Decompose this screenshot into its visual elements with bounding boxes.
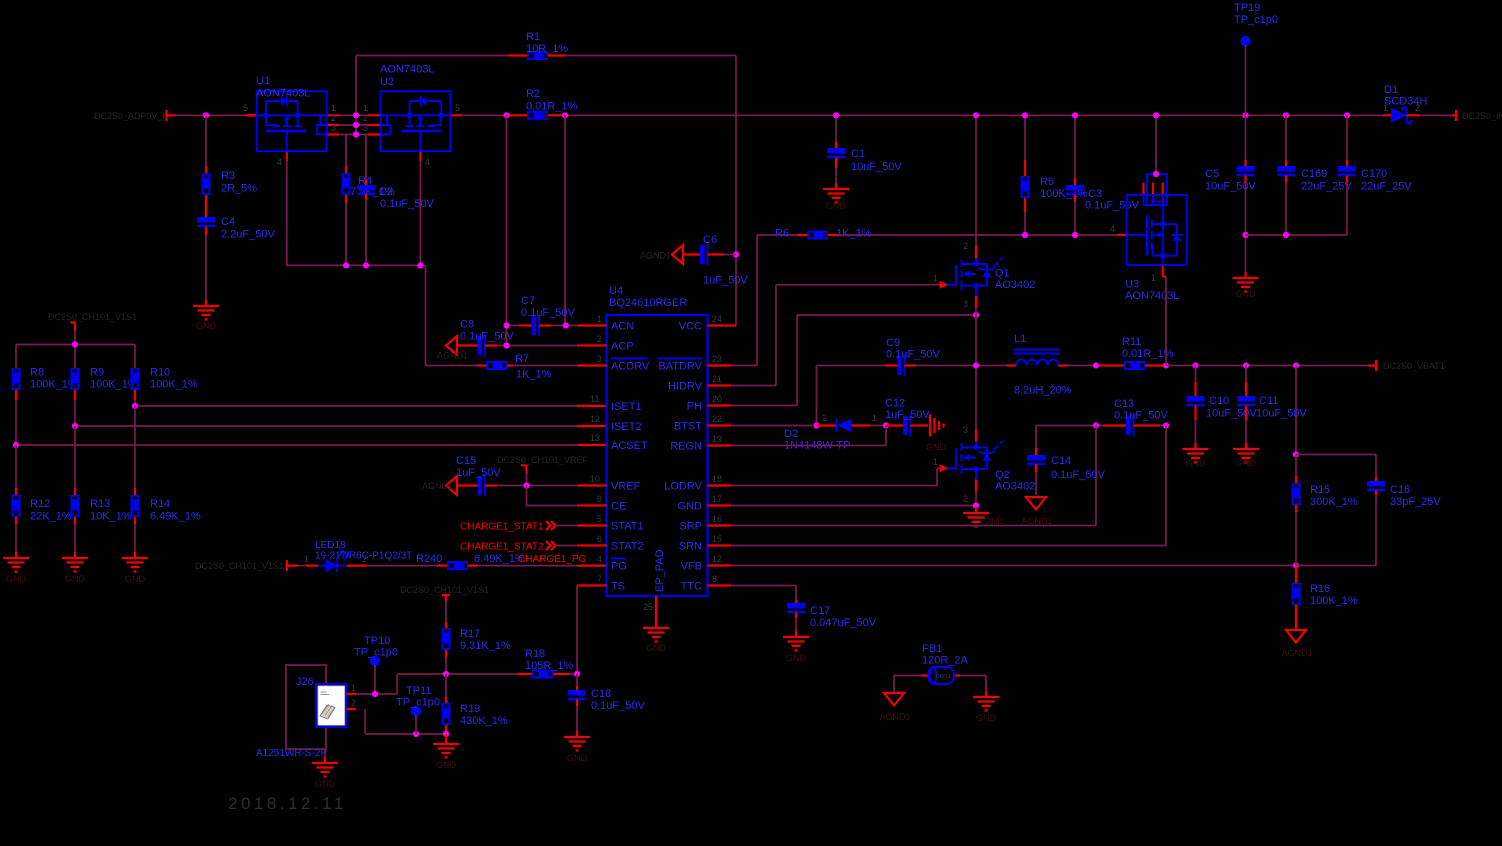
- svg-text:1K_1%: 1K_1%: [516, 369, 552, 381]
- svg-text:ACP: ACP: [611, 341, 634, 353]
- svg-text:U1: U1: [256, 75, 270, 87]
- wire PH/L1 line: [817, 365, 886, 367]
- svg-text:2: 2: [822, 413, 827, 423]
- svg-text:120R_2A: 120R_2A: [922, 655, 969, 667]
- svg-text:AGND1: AGND1: [422, 481, 453, 491]
- svg-text:AGND1: AGND1: [640, 251, 671, 261]
- capacitor C9: [885, 364, 897, 366]
- capacitor C18: [576, 674, 578, 686]
- svg-text:1: 1: [933, 274, 938, 284]
- svg-text:12: 12: [590, 414, 600, 424]
- wire VCC riser: [735, 56, 737, 326]
- svg-text:C3: C3: [1088, 188, 1102, 200]
- svg-text:ISET1: ISET1: [611, 401, 642, 413]
- svg-text:0.1uF_50V: 0.1uF_50V: [1114, 410, 1168, 422]
- svg-text:GND: GND: [1236, 458, 1257, 468]
- resistor R12: [15, 445, 17, 488]
- wire REGN tie: [731, 426, 886, 446]
- resistor R13: [74, 426, 76, 488]
- svg-text:5: 5: [597, 514, 602, 524]
- AGND FB1: [893, 676, 895, 694]
- capacitor C8: [457, 344, 478, 346]
- svg-text:R10: R10: [150, 367, 170, 379]
- connector J26 A1251WR-S-2P: [286, 665, 326, 749]
- capacitor C12: [886, 424, 903, 426]
- svg-text:AGND1: AGND1: [879, 712, 910, 722]
- svg-text:0.047uF_50V: 0.047uF_50V: [810, 617, 877, 629]
- svg-text:GND: GND: [984, 516, 1005, 526]
- capacitor C3: [1074, 115, 1076, 178]
- ground C10: [1183, 443, 1209, 463]
- U4 left pin stubs: [577, 326, 607, 586]
- svg-text:ACSET: ACSET: [611, 440, 648, 452]
- svg-text:33pF_25V: 33pF_25V: [1390, 496, 1441, 508]
- ground R14: [122, 552, 148, 572]
- svg-text:2018.12.11: 2018.12.11: [228, 794, 347, 813]
- resistor R18: [518, 673, 532, 675]
- resistor R19: [445, 674, 447, 697]
- svg-text:DC2S0_CH101_V1S1: DC2S0_CH101_V1S1: [48, 312, 137, 322]
- svg-text:2.2uF_50V: 2.2uF_50V: [221, 229, 275, 241]
- capacitor C14: [1035, 426, 1037, 449]
- ground C17: [783, 631, 809, 651]
- svg-text:1uF_50V: 1uF_50V: [456, 467, 501, 479]
- svg-text:15: 15: [712, 534, 722, 544]
- svg-text:2: 2: [362, 554, 367, 564]
- wire TTC to C17: [731, 586, 796, 601]
- svg-text:C16: C16: [1390, 484, 1410, 496]
- svg-text:VCC: VCC: [679, 321, 702, 333]
- wire TS drop: [576, 586, 578, 675]
- port DC output: [1452, 110, 1456, 121]
- resistor R10: [131, 368, 140, 390]
- svg-text:21: 21: [712, 374, 722, 384]
- resistor R7: [426, 365, 478, 367]
- ground J26: [324, 749, 326, 757]
- svg-text:D2: D2: [784, 428, 798, 440]
- svg-text:BATDRV: BATDRV: [658, 361, 702, 373]
- svg-text:2: 2: [331, 113, 336, 123]
- capacitor C170: [1346, 115, 1348, 160]
- svg-text:VREF: VREF: [611, 481, 641, 493]
- svg-text:SCD34H: SCD34H: [1384, 96, 1427, 108]
- svg-text:C170: C170: [1361, 168, 1387, 180]
- svg-text:11: 11: [590, 394, 599, 404]
- svg-text:0.1uF_50V: 0.1uF_50V: [1051, 469, 1105, 481]
- svg-text:AGND1: AGND1: [1281, 648, 1312, 658]
- svg-text:1uF_50V: 1uF_50V: [885, 409, 930, 421]
- svg-text:C14: C14: [1051, 455, 1071, 467]
- wire input bus to U1: [176, 114, 247, 116]
- svg-text:4: 4: [597, 554, 602, 564]
- ground C5: [1233, 272, 1259, 292]
- svg-text:3: 3: [331, 123, 336, 133]
- svg-text:4: 4: [425, 157, 430, 167]
- svg-text:HIDRV: HIDRV: [668, 381, 703, 393]
- svg-text:1: 1: [331, 103, 336, 113]
- svg-text:5: 5: [455, 103, 460, 113]
- capacitor C5: [1245, 115, 1247, 160]
- capacitor C13: [1103, 424, 1126, 426]
- testpoint TP11: [411, 706, 421, 716]
- wire BATDRV to R6: [731, 235, 797, 366]
- svg-text:1: 1: [933, 457, 938, 467]
- svg-text:0.1uF_50V: 0.1uF_50V: [591, 700, 645, 712]
- svg-text:J26: J26: [296, 676, 314, 688]
- svg-text:R17: R17: [460, 628, 480, 640]
- svg-text:10uF_50V: 10uF_50V: [1256, 408, 1307, 420]
- diode D2 1N4148W-TP: [817, 424, 837, 426]
- wire U1-U2 link y125: [339, 124, 368, 126]
- resistor R3: [205, 115, 207, 166]
- inductor L1: [976, 365, 1007, 367]
- svg-text:GND: GND: [646, 643, 667, 653]
- svg-text:0603: 0603: [936, 674, 951, 681]
- wire divider top bus: [16, 345, 135, 369]
- svg-text:TP11: TP11: [406, 685, 431, 697]
- svg-text:23: 23: [712, 354, 722, 364]
- svg-text:GND: GND: [125, 574, 146, 584]
- svg-text:AON7403L: AON7403L: [256, 88, 310, 100]
- svg-text:TP_c1p0: TP_c1p0: [396, 697, 440, 709]
- wire PH riser: [731, 315, 976, 406]
- svg-text:CHARGE1_STAT2: CHARGE1_STAT2: [460, 542, 544, 553]
- svg-text:3: 3: [963, 299, 968, 309]
- svg-text:0.1uF_50V: 0.1uF_50V: [886, 349, 940, 361]
- svg-text:R3: R3: [221, 170, 235, 182]
- svg-text:C169: C169: [1301, 168, 1327, 180]
- svg-text:10R_1%: 10R_1%: [526, 43, 568, 55]
- diode D1 SCD34H: [1383, 114, 1391, 116]
- resistor R14: [134, 406, 136, 488]
- svg-text:300K_1%: 300K_1%: [1310, 496, 1358, 508]
- svg-text:GND: GND: [1236, 289, 1257, 299]
- resistor R1: [356, 55, 508, 57]
- svg-text:BTST: BTST: [674, 421, 702, 433]
- svg-text:1: 1: [304, 554, 309, 564]
- capacitor C16: [1296, 455, 1376, 478]
- port DC input flag: [167, 110, 177, 121]
- wire gate bus U1-U2: [287, 161, 426, 366]
- svg-text:17: 17: [712, 494, 722, 504]
- wire R2 sense drops: [507, 115, 566, 345]
- AGND R16: [1286, 630, 1306, 643]
- svg-text:AON7403L: AON7403L: [1125, 290, 1179, 302]
- svg-text:DC2S0_ADP9V_IN: DC2S0_ADP9V_IN: [94, 111, 172, 121]
- wire R1 riser: [355, 56, 357, 135]
- svg-text:10uF_50V: 10uF_50V: [851, 161, 902, 173]
- resistor R15: [1295, 366, 1297, 455]
- svg-text:0.1uF_50V: 0.1uF_50V: [380, 198, 434, 210]
- port AGND1 at C15: [446, 476, 457, 495]
- svg-text:GND: GND: [786, 653, 807, 663]
- svg-text:R5: R5: [1040, 176, 1054, 188]
- wire J26 pin1 to TS node: [356, 674, 397, 694]
- transistor U1 AON7403L: [245, 91, 339, 161]
- svg-text:2: 2: [351, 698, 356, 708]
- svg-text:DC2S0_CH101_V1S1: DC2S0_CH101_V1S1: [400, 585, 489, 595]
- svg-text:SRP: SRP: [679, 521, 702, 533]
- svg-text:100K_1%: 100K_1%: [150, 379, 198, 391]
- svg-text:TP_c1p0: TP_c1p0: [354, 647, 398, 659]
- svg-text:ACDRV: ACDRV: [611, 361, 650, 373]
- wire GND pin line: [731, 505, 976, 507]
- svg-text:AGND1: AGND1: [1021, 516, 1052, 526]
- wire TP11 line: [365, 709, 446, 734]
- svg-text:C8: C8: [460, 319, 474, 331]
- svg-text:18: 18: [712, 474, 722, 484]
- svg-text:C1: C1: [851, 148, 865, 160]
- resistor R240: [347, 564, 367, 566]
- svg-text:SRN: SRN: [679, 541, 702, 553]
- port AGND1 at C8: [446, 336, 457, 355]
- svg-text:5: 5: [243, 103, 248, 113]
- svg-text:2: 2: [963, 241, 968, 251]
- svg-text:7: 7: [597, 574, 602, 584]
- svg-text:R240: R240: [416, 553, 442, 565]
- svg-text:100K_1%: 100K_1%: [1310, 595, 1358, 607]
- IC U4 BQ24610RGER: [607, 315, 708, 596]
- svg-text:R7: R7: [515, 353, 529, 365]
- transistor Q2 AO3402: [975, 366, 977, 430]
- svg-text:VFB: VFB: [681, 561, 702, 573]
- svg-text:6.49K_1%: 6.49K_1%: [150, 511, 201, 523]
- svg-text:0.1uF_50V: 0.1uF_50V: [521, 307, 575, 319]
- svg-text:0.1uF_50V: 0.1uF_50V: [460, 331, 514, 343]
- svg-text:DC2S0_VBAT1: DC2S0_VBAT1: [1383, 361, 1445, 371]
- svg-text:1uF_50V: 1uF_50V: [703, 275, 748, 287]
- svg-text:2: 2: [1415, 103, 1420, 113]
- port DC VBAT: [1368, 360, 1376, 371]
- svg-text:AO3402: AO3402: [995, 481, 1035, 493]
- svg-text:10: 10: [590, 474, 600, 484]
- capacitor C1: [835, 115, 837, 142]
- svg-text:22uF_25V: 22uF_25V: [1301, 181, 1352, 193]
- svg-text:C15: C15: [456, 455, 476, 467]
- svg-text:CE: CE: [611, 501, 626, 513]
- transistor U3 AON7403L: [1117, 183, 1187, 277]
- svg-text:C17: C17: [810, 605, 830, 617]
- capacitor C169: [1285, 115, 1287, 160]
- port bracket LED line: [287, 560, 298, 571]
- svg-text:1: 1: [872, 413, 877, 423]
- LED LED18 19-217/R6C-P1Q2/3T: [306, 564, 318, 566]
- svg-text:20: 20: [712, 394, 722, 404]
- svg-text:105R_1%: 105R_1%: [525, 660, 574, 672]
- svg-text:24: 24: [712, 314, 722, 324]
- svg-text:0.01R_1%: 0.01R_1%: [526, 101, 578, 113]
- capacitor C15: [457, 484, 478, 486]
- svg-text:0.1uF_50V: 0.1uF_50V: [1085, 200, 1139, 212]
- svg-text:U4: U4: [609, 285, 623, 297]
- svg-text:STAT2: STAT2: [611, 541, 644, 553]
- testpoint TP19: [1240, 36, 1250, 46]
- wire SRP riser: [731, 426, 1096, 526]
- resistor R4: [345, 135, 347, 167]
- wire VFB line: [731, 565, 1296, 567]
- svg-text:2: 2: [597, 334, 602, 344]
- svg-text:STAT1: STAT1: [611, 521, 644, 533]
- resistor R2: [462, 114, 507, 116]
- svg-text:TP19: TP19: [1234, 2, 1260, 14]
- wire BTST drop: [731, 366, 817, 426]
- svg-text:R9: R9: [90, 367, 104, 379]
- svg-text:CHARGE1_PG: CHARGE1_PG: [518, 554, 587, 565]
- net hook VREF: [521, 465, 527, 474]
- svg-text:C5: C5: [1205, 168, 1219, 180]
- svg-text:LED18: LED18: [315, 540, 346, 551]
- net hook: [71, 323, 76, 331]
- svg-text:C2: C2: [379, 186, 393, 198]
- ground C1: [823, 183, 849, 203]
- svg-text:4: 4: [277, 157, 282, 167]
- svg-text:R18: R18: [525, 648, 545, 660]
- svg-text:GND: GND: [1186, 458, 1207, 468]
- wire output line: [1166, 365, 1368, 367]
- svg-text:2: 2: [963, 494, 968, 504]
- svg-text:GND: GND: [826, 201, 847, 211]
- capacitor C2: [365, 135, 367, 181]
- svg-text:10K_1%: 10K_1%: [90, 511, 132, 523]
- svg-text:1: 1: [351, 683, 356, 693]
- svg-text:22K_1%: 22K_1%: [30, 511, 72, 523]
- capacitor C7: [507, 325, 520, 327]
- svg-text:C6: C6: [703, 234, 717, 246]
- svg-text:12: 12: [712, 554, 722, 564]
- svg-text:TTC: TTC: [681, 581, 702, 593]
- bus junction dots: [833, 112, 839, 118]
- svg-text:6: 6: [597, 534, 602, 544]
- ground EP_PAD: [655, 596, 657, 622]
- svg-text:L1: L1: [1014, 333, 1026, 345]
- svg-text:430K_1%: 430K_1%: [460, 715, 508, 727]
- svg-text:R8: R8: [30, 367, 44, 379]
- wire cap ground rail: [1246, 234, 1348, 236]
- capacitor C10: [1195, 366, 1197, 383]
- capacitor C4: [197, 217, 215, 226]
- svg-text:R11: R11: [1122, 336, 1141, 348]
- ground FB1: [985, 676, 987, 692]
- svg-text:8: 8: [712, 574, 717, 584]
- transistor U2 AON7403L: [368, 91, 462, 161]
- svg-text:1: 1: [597, 314, 602, 324]
- svg-text:13: 13: [590, 433, 600, 443]
- svg-text:9: 9: [597, 494, 602, 504]
- svg-text:PH: PH: [687, 401, 702, 413]
- wire U1-U2 link y134: [339, 134, 368, 136]
- wire C13 node line: [1036, 425, 1166, 427]
- U4 right pin stubs: [708, 326, 737, 586]
- transistor Q1 AO3402: [975, 115, 977, 246]
- svg-text:R1: R1: [526, 31, 540, 43]
- AGND C14: [1026, 497, 1046, 510]
- svg-text:DC2S0_CH101_VREF: DC2S0_CH101_VREF: [497, 455, 589, 465]
- svg-text:PG: PG: [611, 561, 627, 573]
- svg-text:U3: U3: [1125, 279, 1139, 291]
- svg-text:GND: GND: [436, 760, 457, 770]
- resistor R11: [1100, 364, 1124, 366]
- svg-text:AGND1: AGND1: [437, 351, 468, 361]
- resistor R16: [1295, 566, 1297, 584]
- resistor R17: [445, 622, 447, 628]
- svg-text:22uF_25V: 22uF_25V: [1361, 181, 1412, 193]
- svg-text:R2: R2: [526, 88, 540, 100]
- svg-text:10uF_50V: 10uF_50V: [1205, 181, 1256, 193]
- ground R3/C4: [193, 300, 219, 320]
- svg-text:Q1: Q1: [995, 268, 1010, 280]
- ground C11: [1233, 443, 1259, 463]
- svg-text:CHARGE1_STAT1: CHARGE1_STAT1: [460, 522, 544, 533]
- svg-text:AON7403L: AON7403L: [380, 64, 434, 76]
- svg-text:4: 4: [1110, 224, 1115, 234]
- svg-text:LODRV: LODRV: [664, 481, 702, 493]
- svg-text:GND: GND: [567, 753, 588, 763]
- svg-text:DC2S0_CH101_V1S1: DC2S0_CH101_V1S1: [195, 561, 284, 571]
- svg-text:3: 3: [597, 354, 602, 364]
- svg-text:DC2S0_IN1: DC2S0_IN1: [1462, 111, 1502, 121]
- svg-text:19: 19: [712, 434, 722, 444]
- ground R19: [445, 734, 447, 738]
- net hook TS: [442, 595, 450, 601]
- capacitor C6: [683, 253, 700, 255]
- svg-text:Q2: Q2: [995, 469, 1010, 481]
- svg-text:2R_5%: 2R_5%: [221, 183, 257, 195]
- svg-text:R19: R19: [460, 703, 480, 715]
- svg-text:FB1: FB1: [922, 643, 942, 655]
- ground R12: [3, 552, 29, 572]
- wire U1-U2 link y115: [339, 114, 368, 116]
- svg-text:R12: R12: [30, 498, 50, 510]
- wire SRN riser: [731, 426, 1166, 546]
- svg-text:EP_PAD: EP_PAD: [654, 549, 666, 592]
- wire HIDRV to Q1 gate: [731, 285, 940, 386]
- resistor R6: [797, 234, 807, 236]
- svg-text:C11: C11: [1259, 395, 1278, 407]
- svg-text:GND: GND: [976, 713, 997, 723]
- svg-text:GND: GND: [926, 442, 947, 452]
- wire ACSET line: [16, 444, 577, 446]
- svg-text:C13: C13: [1114, 398, 1134, 410]
- capacitor C17: [795, 600, 797, 603]
- wire stub U1 left: [247, 114, 257, 116]
- testpoint TP10: [370, 656, 380, 666]
- svg-text:REGN: REGN: [670, 441, 702, 453]
- svg-text:16: 16: [712, 514, 722, 524]
- svg-text:R15: R15: [1310, 484, 1330, 496]
- wire U3 source to output: [1163, 275, 1166, 277]
- resistor R5: [1024, 115, 1026, 160]
- wire ISET1 line: [135, 405, 577, 407]
- svg-text:9.31K_1%: 9.31K_1%: [460, 640, 511, 652]
- svg-text:U2: U2: [380, 76, 394, 88]
- svg-text:C12: C12: [885, 398, 905, 410]
- svg-text:C7: C7: [521, 295, 535, 307]
- svg-text:TS: TS: [611, 581, 625, 593]
- svg-text:R16: R16: [1310, 583, 1330, 595]
- svg-text:C10: C10: [1209, 395, 1229, 407]
- svg-text:GND: GND: [315, 779, 336, 789]
- svg-text:8.2uH_20%: 8.2uH_20%: [1014, 385, 1072, 397]
- svg-text:R14: R14: [150, 498, 170, 510]
- capacitor C11: [1245, 366, 1247, 383]
- svg-text:GND: GND: [196, 321, 217, 331]
- port AGND1 at C6: [672, 245, 683, 264]
- wire ISET2 line: [75, 425, 577, 427]
- svg-text:25: 25: [643, 602, 653, 612]
- svg-text:3: 3: [963, 425, 968, 435]
- ground R13: [62, 552, 88, 572]
- ground Q2 source: [963, 507, 989, 527]
